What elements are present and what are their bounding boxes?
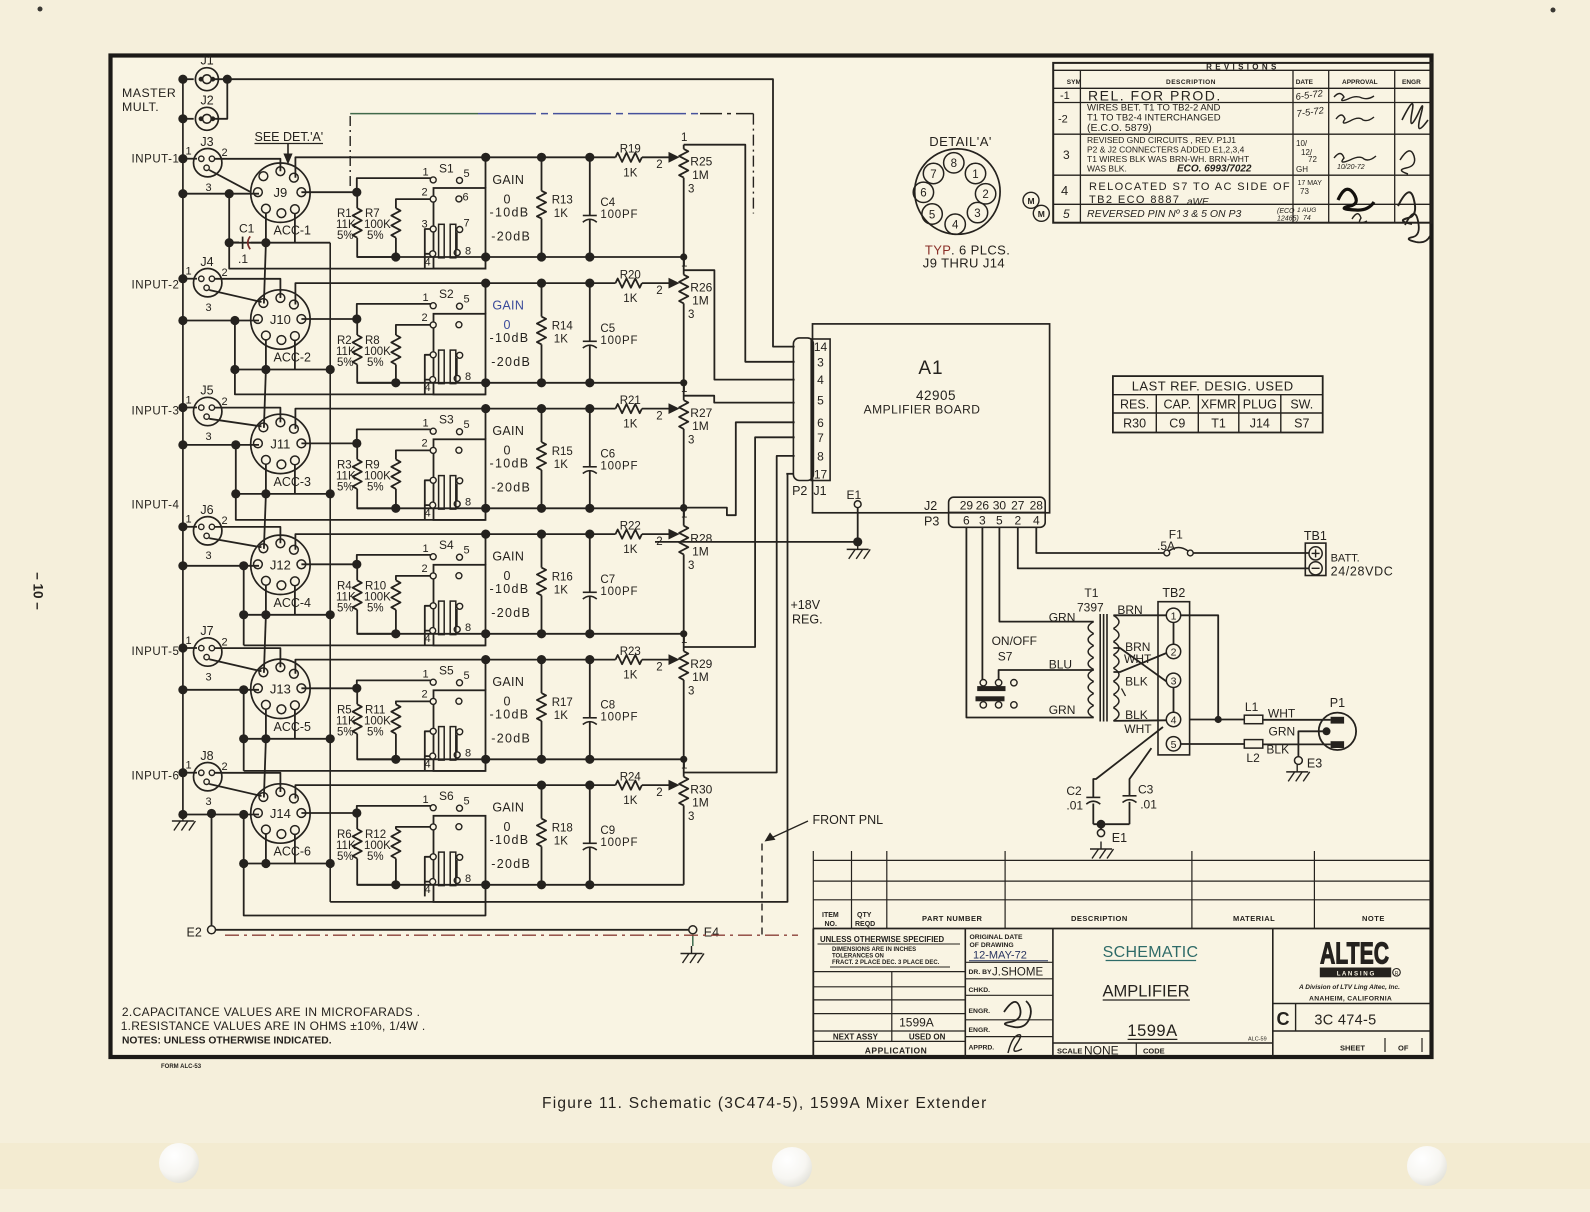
svg-text:1K: 1K (554, 334, 568, 346)
switch S2 pin 7-8 bracket (456, 358, 458, 376)
svg-text:ECO. 6993/7022: ECO. 6993/7022 (1177, 164, 1252, 175)
svg-text:6: 6 (920, 188, 926, 200)
wire S4 frame to signal line (485, 534, 487, 565)
svg-text:BLK: BLK (1125, 708, 1148, 722)
svg-text:C4: C4 (600, 197, 615, 209)
wire L1 to P1 (WHT) (1263, 719, 1331, 721)
svg-text:WHT: WHT (1268, 706, 1296, 720)
svg-text:OF: OF (1398, 1043, 1409, 1052)
svg-text:TB1: TB1 (1304, 529, 1327, 543)
svg-text:DATE: DATE (1296, 79, 1314, 86)
svg-text:1: 1 (681, 132, 687, 144)
svg-text:ENGR.: ENGR. (969, 1027, 991, 1034)
resistor R12 100K (391, 829, 400, 859)
stub J13 lower-right pin to ground wire (294, 709, 296, 738)
stub J12 lower-left pin to ground wire (265, 585, 267, 615)
revisions title row (1053, 69, 1431, 71)
svg-text:ACC-6: ACC-6 (274, 845, 312, 859)
svg-text:6: 6 (462, 191, 468, 203)
signal wire dots channel 4 (537, 530, 546, 539)
chain wire R28 to next channel (683, 634, 685, 651)
svg-text:L2: L2 (1246, 751, 1260, 765)
title block frame (812, 929, 814, 1058)
svg-text:1: 1 (185, 760, 191, 772)
wire J6 pin 2 to J12 (215, 527, 281, 543)
wire S1 frame to signal line (485, 157, 487, 188)
svg-text:26: 26 (976, 499, 990, 513)
svg-text:ENGR: ENGR (1402, 79, 1421, 86)
wire S2 frame to signal line (485, 283, 487, 314)
svg-text:C7: C7 (600, 574, 615, 586)
switch S4 pin 7-8 bracket (456, 609, 458, 627)
resistor R3 11K (353, 459, 362, 489)
svg-text:5%: 5% (337, 726, 354, 738)
resistor R19 1K (series) (616, 153, 642, 162)
left input ground bus vertical (182, 79, 184, 813)
svg-text:CAP.: CAP. (1164, 398, 1192, 412)
svg-text:8: 8 (465, 371, 471, 383)
svg-text:8: 8 (951, 158, 957, 170)
shield return bus vertical (329, 243, 331, 902)
svg-text:2: 2 (421, 312, 427, 324)
connector J1 pin strip on A1 (811, 339, 830, 481)
svg-text:R22: R22 (620, 520, 641, 532)
ground wire J13 to shield bus (244, 738, 331, 740)
svg-text:R20: R20 (620, 269, 641, 281)
junction R4 top (301, 563, 356, 565)
arrow to J9 from SEE DET.'A' (287, 144, 289, 156)
svg-text:SCALE: SCALE (1057, 1047, 1082, 1056)
svg-text:2: 2 (221, 515, 227, 527)
svg-text:APPLICATION: APPLICATION (865, 1045, 927, 1055)
transformer T1 core (1099, 614, 1101, 722)
svg-text:TB2 ECO 8887: TB2 ECO 8887 (1089, 194, 1180, 206)
svg-text:SYM: SYM (1067, 79, 1081, 86)
svg-text:RES.: RES. (1120, 398, 1149, 412)
svg-text:C1: C1 (239, 222, 255, 236)
svg-text:12465): 12465) (1277, 216, 1299, 223)
wire J2 to J1 output (211, 79, 227, 119)
fuse L1 (line filter) (1190, 719, 1245, 721)
svg-text:P1: P1 (1330, 696, 1345, 710)
svg-text:1: 1 (422, 166, 428, 178)
svg-text:5%: 5% (367, 357, 384, 369)
svg-text:5: 5 (463, 419, 469, 431)
svg-text:8: 8 (465, 622, 471, 634)
svg-text:J.SHOME: J.SHOME (992, 967, 1043, 979)
filter L2 (1244, 740, 1263, 749)
wire J3 pin 3 to J9 (209, 170, 250, 192)
svg-text:Figure 11. Schematic (3C474-5: Figure 11. Schematic (3C474-5), 1599A Mi… (542, 1095, 988, 1112)
svg-text:C9: C9 (600, 825, 615, 837)
wire J6 pin 3 to J12 (209, 538, 261, 547)
svg-text:5: 5 (463, 670, 469, 682)
switch S5 slider bars (439, 727, 445, 761)
chain wire R25 to next channel (683, 257, 685, 275)
svg-text:2.CAPACITANCE VALUES ARE IN MI: 2.CAPACITANCE VALUES ARE IN MICROFARADS … (122, 1005, 420, 1019)
svg-text:4: 4 (1061, 183, 1068, 198)
svg-text:1: 1 (681, 634, 687, 646)
C-column wire channel 4 (243, 566, 245, 646)
channel 1 bottom bus wire (357, 256, 684, 258)
svg-text:1 AUG: 1 AUG (1297, 207, 1316, 214)
switch S4 slider bars (439, 601, 445, 635)
svg-text:INPUT-1: INPUT-1 (132, 153, 180, 165)
chassis ground junction below E1 (853, 537, 862, 546)
svg-text:BLK: BLK (1266, 743, 1289, 757)
svg-text:GAIN: GAIN (492, 550, 524, 564)
svg-text:C8: C8 (600, 699, 615, 711)
svg-text:-20dB: -20dB (491, 229, 531, 243)
svg-text:ALC-59: ALC-59 (1248, 1037, 1267, 1043)
signal wire dots channel 2 (537, 279, 546, 288)
wire J9 row to input bus (183, 193, 259, 195)
svg-text:-20dB: -20dB (491, 857, 531, 871)
wire J9 shield to J10 upper-left pin (264, 243, 266, 304)
connector J6 (XLR input jack) (194, 517, 222, 545)
channel 3 bottom bus wire (357, 507, 684, 509)
resistor R6 11K (353, 829, 362, 859)
svg-text:5%: 5% (337, 481, 354, 493)
svg-text:S4: S4 (439, 538, 454, 552)
wire E2 riser (211, 814, 213, 926)
channel 4 bottom bus wire (357, 633, 684, 635)
stub J14 lower-left pin to ground wire (265, 834, 267, 864)
wiper arrow into R27 (669, 403, 680, 414)
svg-text:J4: J4 (200, 255, 213, 269)
wire TB2-4 to C2 (1093, 727, 1163, 797)
svg-text:5: 5 (929, 209, 935, 221)
svg-text:2: 2 (421, 438, 427, 450)
svg-text:3: 3 (205, 796, 211, 808)
svg-text:4: 4 (424, 884, 430, 896)
svg-text:WAS BLK.: WAS BLK. (1087, 164, 1127, 174)
svg-text:R23: R23 (620, 646, 641, 658)
resistor R5 11K (353, 704, 362, 734)
svg-text:J14: J14 (1250, 417, 1270, 431)
junction R6 top (301, 812, 356, 814)
capacitor C7 100PF (589, 534, 591, 592)
resistor R13 1K (541, 157, 543, 191)
fuse F1 .5A (1164, 550, 1170, 556)
chain wire R29 to next channel (683, 759, 685, 776)
ground wire J10 to shield bus (235, 369, 330, 371)
svg-text:WHT: WHT (1124, 722, 1152, 736)
junction C2/C3 to E1 (1093, 823, 1129, 825)
wire J13 row to input bus (183, 689, 259, 691)
potentiometer R26 1M (679, 275, 688, 304)
ground symbol below E4 (692, 934, 694, 946)
svg-text:2: 2 (221, 267, 227, 279)
svg-text:3: 3 (688, 560, 694, 572)
connector J2/P3 on A1 board (949, 497, 1046, 527)
punch hole right (1407, 1146, 1447, 1186)
revisions row lines (1053, 102, 1431, 104)
resistor R18 1K (541, 785, 543, 819)
svg-text:-10dB: -10dB (490, 833, 530, 847)
svg-text:1K: 1K (554, 585, 568, 597)
svg-text:10/20-72: 10/20-72 (1337, 164, 1365, 171)
svg-text:1: 1 (422, 292, 428, 304)
DETAIL 'A' pin 7 (923, 163, 943, 183)
wire J12 output to signal line (295, 534, 540, 550)
svg-text:S1: S1 (439, 161, 454, 175)
svg-text:XFMR: XFMR (1201, 398, 1236, 412)
application area grid (813, 971, 965, 973)
switch S1 pin 3-4 bracket (425, 229, 430, 254)
stub J11 lower-left pin to ground wire (265, 464, 267, 494)
svg-text:QTY: QTY (857, 912, 872, 919)
svg-text:3: 3 (817, 355, 824, 369)
svg-text:R24: R24 (620, 771, 642, 783)
svg-text:2: 2 (656, 285, 662, 297)
svg-text:INPUT-2: INPUT-2 (132, 280, 180, 292)
svg-text:LAST REF. DESIG. USED: LAST REF. DESIG. USED (1132, 379, 1294, 394)
wire P3 pin 5 to T1 primary (GRN) (999, 527, 1093, 621)
svg-text:GAIN: GAIN (492, 424, 524, 438)
DETAIL 'A' pin 5 (922, 204, 942, 224)
svg-text:100PF: 100PF (600, 837, 638, 849)
svg-text:1M: 1M (692, 670, 709, 684)
switch S6 (gain select) (434, 816, 486, 902)
stub J10 lower-left pin to ground wire (265, 340, 267, 370)
svg-text:12-MAY-72: 12-MAY-72 (973, 949, 1027, 961)
wire J12 row to input bus (183, 565, 259, 567)
svg-text:1: 1 (185, 266, 191, 278)
transformer T1 secondary winding (1113, 615, 1119, 628)
svg-text:1599A: 1599A (1127, 1022, 1177, 1040)
switch S1 (gain select) (434, 188, 486, 269)
svg-text:10/: 10/ (1296, 139, 1308, 148)
stub J9 lower-right pin to ground wire (294, 213, 296, 242)
svg-text:-20dB: -20dB (491, 481, 531, 495)
svg-text:S2: S2 (439, 287, 454, 301)
svg-text:1M: 1M (692, 545, 709, 559)
svg-text:J7: J7 (200, 624, 213, 638)
resistor R9 100K (391, 459, 400, 489)
svg-text:TOLERANCES ON: TOLERANCES ON (832, 954, 884, 960)
svg-text:4: 4 (952, 220, 959, 232)
svg-text:DESCRIPTION: DESCRIPTION (1166, 79, 1216, 86)
svg-text:GRN: GRN (1269, 724, 1296, 738)
svg-text:2: 2 (421, 186, 427, 198)
svg-text:P2: P2 (792, 484, 807, 498)
wire input bus to J4 pin 1 (183, 278, 197, 280)
trunk wire R30 to amplifier board (684, 456, 795, 773)
svg-text:J12: J12 (270, 557, 291, 572)
svg-text:2: 2 (421, 563, 427, 575)
svg-text:ACC-4: ACC-4 (274, 596, 312, 610)
svg-text:R30: R30 (1123, 417, 1146, 431)
resistor R14 1K (541, 283, 543, 317)
svg-text:-10dB: -10dB (490, 331, 530, 345)
svg-text:3: 3 (979, 514, 986, 528)
wire J2 to input bus (183, 118, 194, 120)
svg-text:GRN: GRN (1049, 611, 1076, 625)
signal wire dots channel 5 (537, 655, 546, 664)
grounding point E4 (689, 926, 697, 934)
svg-text:(ECO: (ECO (1277, 208, 1295, 215)
svg-text:GRN: GRN (1049, 703, 1076, 717)
svg-text:R19: R19 (620, 144, 641, 156)
wire S7 to T1 primary tap (BLU) (999, 670, 1094, 680)
wire F1 to TB1 plus (1193, 552, 1309, 554)
wire J1 pin17 to chassis point (786, 473, 793, 475)
potentiometer R25 1M (683, 145, 685, 149)
svg-text:6: 6 (963, 514, 970, 528)
connector J9 (accessory socket ACC-1) (251, 163, 310, 222)
svg-text:1: 1 (185, 514, 191, 526)
svg-text:-2: -2 (1058, 114, 1068, 126)
wire J11 shield to J12 upper-left pin (264, 494, 266, 549)
svg-text:C3: C3 (1138, 783, 1154, 797)
svg-text:T1: T1 (1211, 417, 1226, 431)
wiper arrow into R29 (669, 654, 680, 665)
resistor R1 11K (353, 208, 362, 238)
svg-text:8: 8 (465, 497, 471, 509)
DETAIL 'A' pin 8 (944, 153, 964, 173)
connector J10 (accessory socket ACC-2) (251, 290, 310, 349)
revisions column lines (1079, 70, 1081, 222)
svg-text:3: 3 (688, 811, 694, 823)
svg-text:5%: 5% (367, 481, 384, 493)
wire T1 secondary BLK-WHT to TB2-4 (1113, 719, 1166, 722)
ground symbol below power E1 (1090, 848, 1112, 850)
resistor R16 1K (541, 534, 543, 568)
ground wire J12 to shield bus (244, 614, 331, 616)
stub J9 lower-left pin to ground wire (265, 213, 267, 243)
wire J11 output to signal line (295, 409, 540, 429)
svg-text:1K: 1K (623, 167, 637, 179)
wire J3 pin 2 to J9 (215, 159, 281, 171)
svg-text:-10dB: -10dB (490, 457, 530, 471)
capacitor C9 100PF (589, 785, 591, 843)
svg-text:INPUT-6: INPUT-6 (132, 771, 180, 783)
scan speck top-right (1551, 8, 1556, 13)
svg-text:2: 2 (656, 410, 662, 422)
svg-text:R25: R25 (690, 155, 712, 169)
svg-text:5%: 5% (367, 230, 384, 242)
switch S6 pin 3-4 bracket (425, 857, 430, 882)
resistor R2 11K (353, 335, 362, 365)
svg-text:MULT.: MULT. (122, 100, 159, 114)
trunk wire R29 to amplifier board (684, 437, 795, 647)
stub J11 lower-right pin to ground wire (294, 465, 296, 494)
svg-text:P3: P3 (924, 515, 939, 529)
svg-text:1: 1 (422, 794, 428, 806)
wire P1 ground pin to E3 (GRN) (1298, 731, 1326, 757)
wire input bus to J3 pin 1 (183, 158, 197, 160)
svg-text:7: 7 (817, 431, 824, 445)
wire TB2-5 to L2 (1181, 743, 1245, 745)
svg-text:L1: L1 (1245, 700, 1259, 714)
svg-text:3: 3 (205, 302, 211, 314)
svg-text:ACC-2: ACC-2 (274, 351, 312, 365)
svg-text:5%: 5% (337, 851, 354, 863)
svg-text:5: 5 (1171, 739, 1177, 751)
svg-text:BRN: BRN (1117, 603, 1142, 617)
wire J1 to input bus (183, 78, 194, 80)
stub J14 lower-right pin to ground wire (294, 834, 296, 863)
svg-text:J2: J2 (924, 499, 937, 513)
connector J14 (accessory socket ACC-6) (251, 784, 310, 843)
svg-text:PART NUMBER: PART NUMBER (922, 914, 982, 923)
svg-text:DETAIL'A': DETAIL'A' (929, 134, 992, 149)
resistor R15 1K (541, 409, 543, 443)
stub J12 lower-right pin to ground wire (294, 585, 296, 614)
capacitor C3 .01 (1123, 795, 1137, 797)
switch S4 pin 3-4 bracket (425, 606, 430, 631)
svg-text:M: M (1038, 209, 1045, 219)
svg-text:0: 0 (504, 444, 511, 458)
svg-text:aWE: aWE (1187, 197, 1209, 208)
svg-text:100PF: 100PF (600, 586, 638, 598)
svg-text:ENGR.: ENGR. (969, 1008, 991, 1015)
wire P3 pin 6 to T1 primary (GRN) (966, 527, 1093, 717)
svg-text:5: 5 (463, 545, 469, 557)
svg-text:42905: 42905 (916, 388, 956, 403)
svg-text:-10dB: -10dB (490, 582, 530, 596)
svg-text:R18: R18 (552, 822, 573, 834)
svg-text:1.RESISTANCE VALUES ARE IN OHM: 1.RESISTANCE VALUES ARE IN OHMS ±10%, 1/… (121, 1019, 426, 1033)
svg-text:5: 5 (463, 796, 469, 808)
svg-text:2: 2 (1014, 514, 1021, 528)
wire TB2-1 to AC hot (1181, 615, 1219, 719)
DETAIL 'A' pin 6 (913, 182, 933, 202)
grounding point E1 (power) (1100, 824, 1102, 829)
channel-6 ground wire to J1 pin 17 riser (330, 474, 787, 902)
svg-text:0: 0 (504, 192, 511, 206)
svg-text:R27: R27 (690, 406, 712, 420)
svg-text:3: 3 (1171, 675, 1177, 687)
trunk wire R26 to amplifier board (684, 270, 795, 379)
svg-text:A1: A1 (918, 358, 943, 379)
svg-text:0: 0 (504, 569, 511, 583)
svg-text:1K: 1K (554, 459, 568, 471)
DETAIL 'A' pin 2 (975, 184, 995, 204)
wire T1 secondary BRN-WHT to TB2-3 (1113, 648, 1166, 682)
svg-text:1599A: 1599A (899, 1015, 934, 1029)
wire J7 pin 3 to J13 (209, 659, 261, 671)
svg-text:4: 4 (1033, 514, 1040, 528)
svg-text:R16: R16 (552, 571, 573, 583)
potentiometer R27 1M (679, 400, 688, 429)
svg-text:24/28VDC: 24/28VDC (1331, 565, 1394, 579)
switch S2 (gain select) (434, 314, 486, 395)
wire T1 secondary BLK to TB2-2 (1113, 653, 1166, 672)
svg-text:R E V I S I O N S: R E V I S I O N S (1206, 62, 1277, 71)
border frame (111, 56, 1432, 1058)
DETAIL 'A' pin 3 (967, 202, 987, 222)
channel 6 bottom bus wire (357, 884, 684, 886)
DETAIL 'A' pin 4 (945, 214, 965, 234)
stub J13 lower-left pin to ground wire (265, 709, 267, 739)
potentiometer R28 1M (679, 526, 688, 555)
svg-text:NO.: NO. (825, 921, 838, 928)
svg-text:7: 7 (463, 217, 469, 229)
svg-text:J5: J5 (200, 384, 213, 398)
svg-text:3: 3 (688, 435, 694, 447)
svg-text:.1: .1 (238, 252, 248, 266)
svg-text:2: 2 (221, 761, 227, 773)
svg-text:USED ON: USED ON (909, 1033, 946, 1042)
svg-text:1: 1 (681, 258, 687, 270)
svg-text:2: 2 (1171, 647, 1177, 659)
svg-text:C5: C5 (600, 323, 615, 335)
svg-text:100PF: 100PF (600, 335, 638, 347)
drawing number cell (1273, 1003, 1431, 1005)
trunk wire R25 to amplifier board (684, 145, 795, 362)
